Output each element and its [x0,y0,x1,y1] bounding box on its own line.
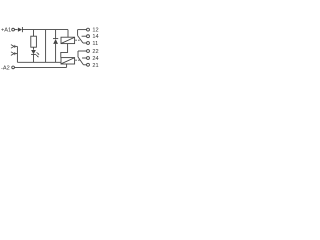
svg-text:+A1: +A1 [1,28,11,34]
svg-text:11: 11 [92,41,98,47]
svg-text:12: 12 [92,27,98,33]
svg-text:21: 21 [92,63,98,69]
svg-text:14: 14 [92,34,98,40]
svg-text:22: 22 [92,49,98,55]
svg-text:24: 24 [92,56,98,62]
svg-text:-A2: -A2 [1,65,10,71]
